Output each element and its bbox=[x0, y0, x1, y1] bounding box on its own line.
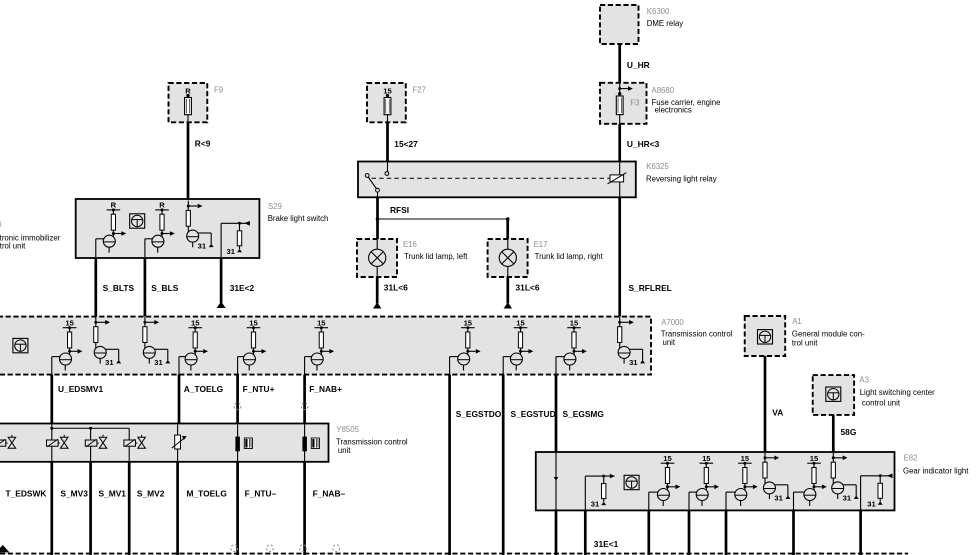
A7000 input pin S_RFLREL bbox=[618, 317, 646, 367]
svg-text:15: 15 bbox=[191, 319, 200, 328]
svg-text:31: 31 bbox=[629, 358, 638, 367]
svg-text:U_HR: U_HR bbox=[627, 60, 650, 70]
control unit A3 bbox=[813, 375, 854, 415]
svg-text:Trunk lid lamp, right: Trunk lid lamp, right bbox=[535, 252, 604, 261]
svg-text:General module con-: General module con- bbox=[792, 329, 865, 338]
svg-text:F_NTU–: F_NTU– bbox=[245, 489, 277, 499]
wire U_HR<3 bbox=[618, 124, 621, 162]
svg-text:31L<6: 31L<6 bbox=[516, 283, 540, 293]
relay switch contact bbox=[365, 162, 388, 198]
wire 31L<6 right bbox=[506, 277, 509, 303]
relay actuation dashed link bbox=[372, 177, 610, 179]
control unit A1 bbox=[745, 316, 786, 356]
wire S_MV1 bbox=[89, 462, 92, 555]
twisted pair marker F_NAB+ bbox=[301, 403, 308, 410]
wire R<9 bbox=[187, 122, 190, 199]
S29 input pin from R<9 bbox=[186, 201, 214, 251]
wire 58G bbox=[832, 415, 835, 452]
svg-text:Gear indicator light: Gear indicator light bbox=[903, 466, 969, 475]
switch unit S29 bbox=[76, 199, 260, 258]
svg-text:trol unit: trol unit bbox=[792, 338, 818, 347]
svg-text:15: 15 bbox=[65, 319, 74, 328]
svg-text:unit: unit bbox=[663, 338, 676, 347]
svg-text:Brake light switch: Brake light switch bbox=[268, 214, 329, 223]
svg-text:K6300: K6300 bbox=[647, 7, 670, 16]
solenoid valve (partial, T_EDSWK column) bbox=[0, 435, 16, 449]
svg-text:6: 6 bbox=[0, 220, 2, 229]
wire 31E<1 bbox=[584, 510, 587, 555]
lamp symbol E16 bbox=[369, 239, 386, 277]
svg-text:E82: E82 bbox=[904, 454, 918, 463]
svg-text:U_EDSMV1: U_EDSMV1 bbox=[58, 384, 103, 394]
A7000 input pin S_BLTS bbox=[94, 317, 122, 367]
temperature sensor M_TOELG bbox=[172, 424, 187, 462]
svg-text:S29: S29 bbox=[268, 202, 282, 211]
svg-text:31: 31 bbox=[154, 358, 163, 367]
control unit A7000 bbox=[0, 317, 651, 375]
node RFSI junction bbox=[376, 217, 510, 221]
fuse carrier A8680 bbox=[600, 83, 647, 124]
A7000 electronics symbol bbox=[13, 338, 28, 352]
svg-text:15: 15 bbox=[663, 454, 672, 463]
fuse box F27 bbox=[367, 83, 406, 122]
svg-text:A3: A3 bbox=[859, 376, 869, 385]
E82 input pin VA bbox=[763, 453, 791, 503]
svg-text:31: 31 bbox=[227, 247, 236, 256]
twisted pair markers bottom bbox=[231, 545, 238, 552]
wire E82 out 5 bbox=[859, 510, 862, 555]
svg-text:F_NTU+: F_NTU+ bbox=[243, 384, 275, 394]
svg-text:RFSI: RFSI bbox=[390, 205, 409, 215]
svg-text:F3: F3 bbox=[630, 99, 639, 108]
svg-text:DME relay: DME relay bbox=[647, 19, 683, 28]
svg-text:F_NAB–: F_NAB– bbox=[313, 489, 346, 499]
wire F_NAB+ bbox=[303, 375, 306, 425]
E82 input pin 58G bbox=[831, 453, 859, 503]
solenoid valve S_MV3 bbox=[47, 435, 69, 449]
svg-text:electronics: electronics bbox=[655, 105, 692, 114]
svg-text:S_EGSTUD: S_EGSTUD bbox=[511, 409, 556, 419]
relay K6325 bbox=[358, 162, 636, 198]
A7000 pin 15 / S_EGSMG bbox=[556, 319, 587, 375]
E82 right resistor to 31 bbox=[861, 474, 893, 511]
svg-text:Y8505: Y8505 bbox=[336, 425, 359, 434]
wire S_BLTS bbox=[94, 258, 97, 317]
E82 pin 15 #1 bbox=[649, 454, 681, 510]
svg-text:Trunk lid lamp, left: Trunk lid lamp, left bbox=[404, 252, 468, 261]
svg-text:15: 15 bbox=[249, 319, 258, 328]
wire S_MV2 bbox=[128, 462, 131, 555]
A7000 pin 15 / F_NTU+ bbox=[238, 319, 267, 375]
S29 pin R / S_BLTS driver bbox=[96, 201, 126, 257]
indicator unit E82 bbox=[536, 452, 895, 510]
wire F_NTU- bbox=[236, 462, 239, 555]
E82 pin 15 #2 bbox=[689, 454, 719, 510]
svg-text:E16: E16 bbox=[403, 240, 417, 249]
svg-text:S_MV2: S_MV2 bbox=[137, 489, 165, 499]
fuse F27 bbox=[383, 86, 392, 122]
ground arrow 31E<2 bbox=[217, 301, 226, 308]
A1 electronics symbol bbox=[758, 330, 773, 344]
fuse F3 bbox=[616, 83, 633, 124]
svg-text:S_MV1: S_MV1 bbox=[99, 489, 127, 499]
svg-text:F9: F9 bbox=[214, 85, 223, 94]
svg-text:R: R bbox=[159, 201, 165, 210]
svg-text:31E<1: 31E<1 bbox=[594, 539, 619, 549]
wire 15<27 bbox=[386, 122, 389, 161]
wire RFSI bbox=[376, 197, 379, 239]
A7000 pin 15 / S_EGSTUD bbox=[503, 319, 533, 375]
wire 31L<6 left bbox=[376, 277, 379, 303]
A7000 input pin S_BLS bbox=[143, 317, 171, 367]
svg-text:R: R bbox=[111, 201, 117, 210]
ground arrow bottom left corner bbox=[0, 545, 10, 552]
wire to E17 bbox=[506, 219, 509, 239]
A7000 pin 15 / S_EGSTDO bbox=[450, 319, 481, 375]
wire F_NAB- bbox=[303, 462, 306, 555]
svg-text:F_NAB+: F_NAB+ bbox=[309, 384, 342, 394]
svg-text:A1: A1 bbox=[792, 317, 802, 326]
A7000 pin 15 / F_NAB+ bbox=[305, 319, 335, 375]
E82 resistor to 31 (31E<1) bbox=[585, 474, 614, 511]
svg-text:15<27: 15<27 bbox=[394, 139, 418, 149]
A7000 pin 15 / A_TOELG bbox=[179, 319, 208, 375]
wire U_EDSMV1 bbox=[50, 375, 53, 425]
svg-text:31: 31 bbox=[774, 493, 783, 502]
svg-text:R<9: R<9 bbox=[195, 138, 211, 148]
lamp E16 bbox=[357, 239, 397, 277]
S29 resistor to 31 bbox=[221, 221, 250, 258]
control unit Y8505 bbox=[0, 424, 329, 462]
wire M_TOELG bbox=[176, 462, 179, 555]
fuse box F9 bbox=[169, 83, 208, 122]
wire E82 out 4 bbox=[792, 510, 795, 555]
wire U_HR bbox=[618, 44, 621, 83]
svg-text:S_MV3: S_MV3 bbox=[60, 489, 88, 499]
wire S_RFLREL bbox=[618, 197, 621, 316]
wire S_EGSMG bbox=[555, 375, 558, 452]
svg-text:S_BLTS: S_BLTS bbox=[103, 283, 135, 293]
svg-text:15: 15 bbox=[570, 319, 579, 328]
lamp symbol E17 bbox=[499, 239, 516, 277]
fuse F9 bbox=[185, 86, 192, 122]
svg-text:31E<2: 31E<2 bbox=[230, 283, 255, 293]
wire S_MV3 bbox=[50, 462, 53, 555]
relay K6300 bbox=[600, 5, 639, 44]
solenoid valve S_MV1 bbox=[85, 435, 107, 449]
wire S_EGSTUD bbox=[502, 375, 505, 555]
wire S_EGSTDO bbox=[448, 375, 451, 555]
E82 pass-through wire S_EGSMG with arrow bbox=[554, 452, 559, 510]
svg-text:T_EDSWK: T_EDSWK bbox=[6, 489, 47, 499]
svg-text:S_EGSMG: S_EGSMG bbox=[563, 409, 604, 419]
S29 electronics symbol bbox=[130, 214, 145, 228]
svg-text:15: 15 bbox=[464, 319, 473, 328]
A3 electronics symbol bbox=[826, 387, 841, 401]
svg-text:15: 15 bbox=[741, 454, 750, 463]
svg-text:31: 31 bbox=[105, 358, 114, 367]
speed sensor F_NTU bbox=[235, 424, 252, 462]
wire A_TOELG bbox=[178, 375, 181, 425]
twisted pair marker F_NTU+ bbox=[234, 403, 241, 410]
wire 31E<2 bbox=[220, 258, 223, 303]
svg-text:31: 31 bbox=[843, 493, 852, 502]
bottom control unit border (clipped) bbox=[0, 553, 908, 555]
ground arrow 31L right bbox=[504, 302, 512, 308]
svg-text:Light switching center: Light switching center bbox=[860, 388, 935, 397]
svg-text:A8680: A8680 bbox=[652, 86, 675, 95]
solenoid valve S_MV2 bbox=[124, 435, 145, 449]
wire S_BLS bbox=[144, 258, 147, 317]
E82 pin 15 #3 bbox=[726, 454, 758, 510]
svg-text:Reversing light relay: Reversing light relay bbox=[646, 175, 717, 184]
wire E82 out 2 bbox=[688, 510, 691, 555]
ground arrow 31L left bbox=[373, 302, 381, 308]
S29 pin R / S_BLS driver bbox=[145, 201, 175, 257]
svg-text:58G: 58G bbox=[841, 427, 857, 437]
relay coil bbox=[608, 162, 627, 198]
svg-text:S_BLS: S_BLS bbox=[151, 283, 178, 293]
svg-text:A7000: A7000 bbox=[661, 318, 684, 327]
svg-text:31: 31 bbox=[198, 242, 207, 251]
svg-text:K6325: K6325 bbox=[646, 162, 669, 171]
svg-text:15: 15 bbox=[810, 454, 819, 463]
svg-text:F27: F27 bbox=[413, 85, 426, 94]
E82 electronics symbol bbox=[624, 475, 639, 489]
svg-text:VA: VA bbox=[772, 408, 783, 418]
svg-text:15: 15 bbox=[516, 319, 525, 328]
svg-text:unit: unit bbox=[338, 446, 351, 455]
svg-text:E17: E17 bbox=[534, 240, 548, 249]
svg-text:control unit: control unit bbox=[862, 399, 901, 408]
wire S_EGSMG lower bbox=[555, 510, 558, 555]
wire E82 out 1 bbox=[647, 510, 650, 555]
svg-text:15: 15 bbox=[702, 454, 711, 463]
svg-text:S_EGSTDO: S_EGSTDO bbox=[456, 409, 502, 419]
svg-text:A_TOELG: A_TOELG bbox=[184, 384, 223, 394]
svg-text:M_TOELG: M_TOELG bbox=[187, 489, 227, 499]
wire VA bbox=[764, 356, 767, 452]
A7000 pin 15 / U_EDSMV1 bbox=[52, 319, 83, 375]
lamp E17 bbox=[488, 239, 528, 277]
svg-text:31: 31 bbox=[867, 499, 876, 508]
svg-text:31L<6: 31L<6 bbox=[384, 283, 408, 293]
E82 pin 15 #4 bbox=[794, 454, 827, 510]
svg-text:control unit: control unit bbox=[0, 242, 26, 251]
svg-text:31: 31 bbox=[591, 500, 600, 509]
speed sensor F_NAB bbox=[302, 424, 319, 462]
wire F_NTU+ bbox=[236, 375, 239, 425]
svg-text:15: 15 bbox=[317, 319, 326, 328]
Y8505 internal supply rail bbox=[50, 424, 129, 462]
svg-text:S_RFLREL: S_RFLREL bbox=[629, 283, 672, 293]
wire E82 out 3 bbox=[725, 510, 728, 555]
svg-text:U_HR<3: U_HR<3 bbox=[627, 139, 660, 149]
